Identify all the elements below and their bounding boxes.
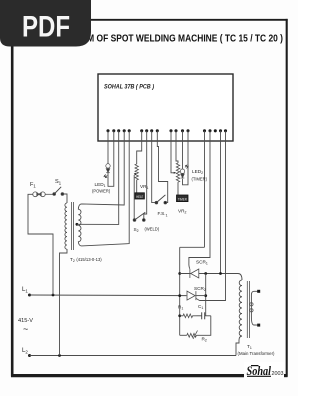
R2 slash mark (193, 331, 198, 340)
T1 primary bottom return wire to L2 (236, 336, 242, 356)
T2 secondary winding (78, 209, 81, 241)
LED1 wires (107, 141, 109, 164)
PCB box U1 (98, 74, 233, 141)
T2 secondary top lead to pin 124.5 (78, 141, 124, 210)
border frame (11, 19, 288, 377)
wire pin221.2 down to SCR1 row (220, 141, 222, 274)
LED D1 (104, 164, 110, 178)
junction dot SCR2 row link (204, 294, 207, 297)
R2 right wire up (196, 316, 210, 336)
TIMER panel label (177, 195, 189, 202)
resistor R1 (180, 314, 197, 318)
T2 primary bottom wire to L2 (60, 249, 68, 356)
switch S2 (133, 212, 145, 221)
svg-text:~: ~ (23, 324, 28, 334)
wire pin226.6 down to SCR2 gate line (200, 141, 226, 301)
svg-text:L1: L1 (22, 287, 28, 294)
svg-text:S1: S1 (55, 179, 62, 185)
svg-text:L2: L2 (22, 348, 28, 355)
HEAT panel label (135, 193, 144, 199)
wire pin210.8 down to gate line (189, 141, 210, 263)
PCB pins group 4 (203, 129, 227, 140)
R2 parallel loop left/bottom/right wires (180, 334, 187, 336)
svg-text:(Main Transformer): (Main Transformer) (238, 351, 275, 356)
svg-text:(TIMER): (TIMER) (192, 177, 208, 182)
junction dot SCR1/SCR2 link (204, 272, 207, 275)
T2 center tap wire to pin 119 (77, 141, 119, 225)
PDF badge (0, 0, 91, 47)
wire L2 rail (30, 355, 237, 357)
T2 core (71, 202, 73, 250)
svg-text:(WELD): (WELD) (145, 227, 160, 232)
svg-text:PDF: PDF (22, 11, 70, 44)
VR1 top jog wire (137, 141, 142, 165)
T1 core (246, 281, 248, 338)
wire from L1 junction up to fuse (28, 194, 53, 295)
node L1 dot (28, 294, 31, 297)
svg-text:SOHAL 37B ( PCB ): SOHAL 37B ( PCB ) (104, 84, 154, 91)
thyristor SCR1 (pointing left) (190, 269, 199, 278)
svg-text:F1: F1 (30, 182, 36, 188)
switch S2 wires (144, 141, 147, 221)
VR1 bottom lead (136, 181, 138, 193)
snubber row right segment (205, 315, 211, 317)
PCB pins group 2 (140, 129, 159, 140)
svg-text:RAM OF SPOT WELDING MACHINE (: RAM OF SPOT WELDING MACHINE ( TC 15 / TC… (75, 34, 283, 45)
LED D2 (180, 165, 188, 178)
transformer T2 (60, 141, 130, 356)
foot switch FS1 wires (152, 141, 156, 203)
thyristor SCR2 (pointing right) (187, 291, 200, 300)
VR2 bottom lead (177, 183, 179, 195)
potentiometer VR2 (176, 163, 179, 183)
fuse F1 (33, 192, 54, 197)
T1 secondary top electrode (257, 290, 260, 293)
T1 secondary winding (251, 291, 258, 325)
potentiometer VR1 (135, 164, 138, 181)
svg-text:TIMER: TIMER (178, 197, 187, 201)
vertical link wire SCR1 row to snubber row (205, 274, 207, 316)
junction dot on L1 rail (52, 294, 55, 297)
main vertical node wire x=179.6 (179, 247, 181, 335)
wire SCR row to T1 primary (238, 274, 242, 281)
svg-text:2003: 2003 (272, 371, 284, 377)
wire S1 to T2 primary (62, 194, 67, 203)
T2 center tap dot (76, 223, 79, 226)
svg-text:(POWER): (POWER) (92, 189, 111, 194)
VR1 wiper arrow (133, 175, 135, 220)
LED2 wires (182, 141, 184, 169)
T1 secondary bottom electrode (257, 324, 260, 327)
wire L1 rail (30, 294, 187, 297)
resistor R2 (187, 333, 197, 337)
SCR1 row wire (180, 273, 238, 275)
switch S1 (53, 187, 64, 196)
capacitor C1 (197, 312, 205, 319)
junction dots on vertical (178, 272, 181, 275)
PCB pins group 3 (169, 129, 189, 140)
junction dot SCR1 row / pin wire (219, 272, 222, 275)
SCR1 gate lead (188, 263, 191, 269)
VR2 wiper arrow from pin171 (171, 141, 174, 173)
svg-text:HEAT: HEAT (136, 195, 144, 199)
junction dot on L2 rail (58, 354, 61, 357)
T1 primary winding (239, 280, 242, 336)
T2 primary winding (65, 203, 67, 249)
VR2 top wire (176, 141, 178, 164)
node L2 dot (28, 354, 31, 357)
PCB pins group 1 (106, 129, 130, 140)
T2 secondary bottom lead to pin 129.5 (78, 141, 129, 246)
foot switch FS1 (155, 195, 167, 204)
wire pin205 down (204, 141, 206, 248)
sohal logo (244, 362, 284, 378)
SCR2 cathode wire to link (196, 295, 206, 297)
